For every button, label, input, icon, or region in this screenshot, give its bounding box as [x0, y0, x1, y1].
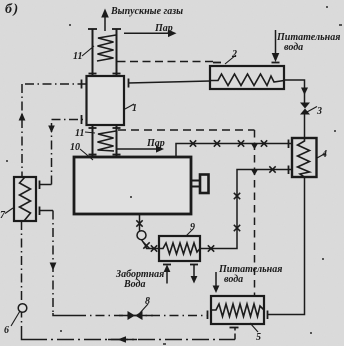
svg-text:2: 2	[231, 49, 237, 60]
svg-text:вода: вода	[284, 42, 303, 53]
svg-text:9: 9	[190, 222, 195, 233]
svg-text:1: 1	[132, 103, 137, 114]
svg-text:Вода: Вода	[123, 279, 146, 290]
svg-text:11: 11	[73, 51, 82, 62]
svg-text:Выпускные газы: Выпускные газы	[110, 6, 183, 17]
svg-text:8: 8	[145, 296, 150, 307]
svg-text:Пар: Пар	[146, 138, 165, 149]
svg-text:вода: вода	[224, 274, 243, 285]
svg-text:5: 5	[256, 332, 261, 343]
svg-text:б): б)	[5, 2, 20, 17]
svg-text:10: 10	[70, 142, 80, 153]
svg-text:11: 11	[75, 128, 84, 139]
svg-text:4: 4	[321, 149, 327, 160]
svg-text:3: 3	[316, 106, 322, 117]
svg-text:6: 6	[4, 325, 9, 336]
svg-text:Пар: Пар	[154, 23, 173, 34]
